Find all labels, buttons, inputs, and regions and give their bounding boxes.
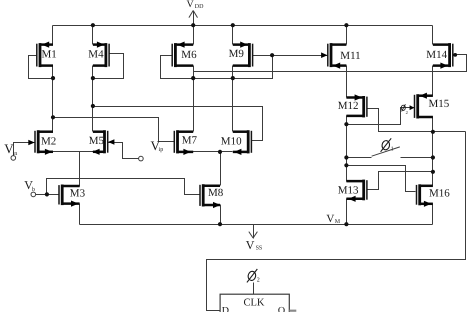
svg-text:M3: M3	[70, 187, 86, 199]
transistor M13	[362, 180, 365, 201]
wire M14 column	[432, 26, 434, 45]
transistor M4	[105, 43, 108, 67]
wire latch node B (M13 drain to M16 gate)	[347, 166, 416, 192]
switch phi1 blade	[372, 147, 400, 156]
svg-text:M14: M14	[426, 49, 447, 61]
transistor M11	[330, 43, 333, 67]
transistor M2	[37, 130, 40, 153]
node dot W2	[51, 115, 55, 119]
transistor M8	[202, 184, 205, 206]
svg-text:D: D	[222, 306, 229, 312]
terminal V_b	[31, 192, 36, 197]
arrow into M2 gate	[28, 140, 34, 146]
wire M9 diode loop + gate wire to M11 (node B)	[253, 55, 328, 57]
node dot W1	[91, 104, 95, 108]
wire M12 gate loop to M15 source node	[367, 109, 466, 132]
wire diff pair common source line	[39, 151, 105, 153]
node M14 gate dot	[453, 53, 457, 57]
svg-text:CLK: CLK	[244, 298, 265, 309]
svg-text:2: 2	[406, 110, 408, 115]
svg-text:V: V	[326, 213, 334, 225]
arrow into M5 gate	[108, 139, 114, 145]
wire latch node A with switch gap	[347, 157, 372, 159]
transistor M5	[103, 130, 106, 153]
terminal V_ip	[139, 156, 144, 161]
arrow into M15 gate	[410, 105, 415, 110]
wire M3 source to VSS rail corner	[79, 204, 81, 225]
wire M12 source node to M15 gate	[347, 108, 415, 125]
svg-text:M: M	[335, 219, 341, 225]
svg-text:M7: M7	[182, 134, 198, 146]
svg-text:M5: M5	[89, 135, 105, 147]
svg-text:in: in	[13, 151, 18, 157]
node dot M9 gate junction	[270, 53, 274, 57]
svg-text:M9: M9	[229, 48, 245, 60]
wire M12 source lead	[346, 116, 348, 182]
svg-text:M2: M2	[41, 135, 56, 147]
wire M1 diode loop	[29, 56, 53, 79]
arrow into M11 gate	[321, 52, 327, 58]
wire M6-M9 drain link	[194, 78, 233, 80]
svg-text:ip: ip	[159, 147, 164, 153]
flip-flop box	[220, 294, 289, 312]
wire VSS rail	[80, 224, 433, 226]
wire VDD rail	[53, 25, 433, 27]
transistor M1	[39, 43, 42, 67]
node dot M7/M10 source - M8 drain	[218, 150, 222, 154]
svg-text:2: 2	[257, 278, 260, 284]
node VDD arrow	[193, 11, 195, 26]
svg-text:b: b	[32, 186, 35, 193]
svg-text:M12: M12	[338, 100, 359, 112]
svg-text:M6: M6	[181, 49, 197, 61]
node dots on VDD rail	[91, 23, 95, 27]
svg-text:M4: M4	[88, 49, 104, 61]
wire M13 gate loop to M16 drain node	[367, 172, 433, 190]
wire phi_2 to CLK box	[253, 283, 255, 295]
wire M6 diode loop	[161, 56, 194, 79]
wire M16 source to rail	[432, 204, 434, 225]
svg-text:1: 1	[391, 147, 394, 153]
svg-text:M15: M15	[429, 98, 450, 110]
wire M8 source to rail	[220, 205, 222, 225]
terminal V_in	[11, 156, 16, 161]
transistor M7	[176, 130, 179, 153]
svg-text:DD: DD	[195, 4, 204, 10]
svg-text:SS: SS	[256, 246, 263, 252]
wire latch output to flip-flop D	[207, 132, 466, 311]
node dots latch right column	[431, 130, 435, 134]
transistor M10	[247, 130, 250, 153]
wire M1 drain column	[52, 26, 54, 45]
svg-text:M16: M16	[429, 188, 450, 200]
wire M4 drain column	[92, 26, 94, 45]
wire Q output stub	[289, 310, 296, 312]
node dot V_b	[45, 192, 49, 196]
label phi_2 small at M15 gate	[401, 105, 405, 110]
node dots latch left column	[344, 122, 348, 126]
svg-text:M1: M1	[42, 49, 57, 61]
svg-text:M11: M11	[340, 50, 360, 62]
transistor M9	[248, 43, 251, 67]
transistor M14	[448, 43, 451, 67]
wire first-stage out to M14 gate (long, y=71.5)	[194, 55, 467, 72]
wire M4 diode loop	[93, 54, 124, 79]
node dots drain row	[51, 76, 55, 80]
label phi_1	[381, 140, 390, 151]
wire M7/M10 source line	[191, 151, 233, 153]
transistor M3	[61, 185, 64, 206]
wire W2: M1/M2 drains to M7 gate	[53, 118, 175, 142]
wire M9 drain column	[232, 26, 234, 45]
node VSS arrow	[253, 225, 255, 239]
wire W1: M4/M5 drains to M10 gate	[93, 107, 263, 141]
svg-text:V: V	[246, 238, 255, 252]
transistor M12	[362, 96, 365, 117]
transistor M6	[174, 43, 177, 67]
wire common source to M3 drain	[79, 152, 81, 187]
svg-text:M10: M10	[221, 135, 242, 147]
transistor M16	[418, 184, 421, 205]
svg-text:M8: M8	[208, 187, 224, 199]
transistor M15	[416, 94, 419, 118]
wire V_b to M3 gate and M8 gate	[36, 194, 59, 196]
wire M6 drain column	[193, 26, 195, 45]
svg-text:Q: Q	[278, 306, 286, 312]
wire M15 source lead	[432, 117, 434, 186]
wire M13 source to rail	[346, 199, 348, 225]
svg-text:M13: M13	[338, 184, 359, 196]
node dots VSS rail	[218, 222, 222, 226]
label phi_2 at CLK	[247, 271, 256, 282]
svg-text:V: V	[187, 0, 195, 10]
wire M8 drain lead	[220, 152, 222, 186]
wire M11 column	[346, 26, 348, 45]
